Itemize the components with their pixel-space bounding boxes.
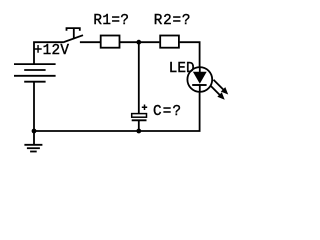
switch actuator T xyxy=(67,28,80,39)
node junction bottom at capacitor xyxy=(136,129,141,134)
ground bar 2 xyxy=(27,147,40,149)
ground stem xyxy=(33,131,35,145)
node junction bottom left xyxy=(32,129,37,134)
capacitor C (polarized) xyxy=(132,105,148,121)
wire switch to R1 xyxy=(80,41,100,43)
LED cathode wire inside xyxy=(199,85,201,92)
battery plate short 1 xyxy=(24,69,45,71)
switch lever xyxy=(63,35,83,42)
ground bar 1 xyxy=(24,144,42,146)
LED cathode bar xyxy=(192,84,206,86)
resistor R2 xyxy=(160,36,179,48)
svg-text:R2=?: R2=? xyxy=(154,13,192,29)
wire capacitor to bottom rail xyxy=(138,120,140,131)
ground bar 3 xyxy=(30,151,37,153)
svg-text:R1=?: R1=? xyxy=(93,13,129,29)
svg-text:+12V: +12V xyxy=(34,43,70,59)
resistor R1 xyxy=(101,36,120,48)
wire battery bottom to ground node xyxy=(33,82,35,131)
LED circle xyxy=(187,67,212,92)
LED anode wire inside xyxy=(199,67,201,72)
node junction top (to capacitor) xyxy=(136,40,141,45)
LED triangle xyxy=(193,72,207,84)
bottom wire xyxy=(34,130,201,132)
wire LED to bottom rail xyxy=(199,92,201,131)
wire R2 to right rail corner xyxy=(180,42,200,67)
wire R1 to R2 xyxy=(119,41,159,43)
svg-text:C=?: C=? xyxy=(153,104,182,120)
wire battery top to switch xyxy=(34,42,63,64)
battery plate short 2 xyxy=(24,81,45,83)
svg-text:LED: LED xyxy=(169,61,195,77)
capacitor top plate (hollow) xyxy=(132,114,147,118)
LED light arrow 2 xyxy=(211,86,225,100)
ground xyxy=(24,131,42,152)
pushbutton switch S1 xyxy=(63,28,83,42)
capacitor plus sign xyxy=(142,105,147,111)
LED light arrow 1 xyxy=(214,80,229,95)
battery plate long 1 xyxy=(14,63,56,65)
wire junction to capacitor xyxy=(138,42,140,114)
battery B1 xyxy=(14,64,56,82)
battery plate long 2 xyxy=(14,75,56,77)
LED D1 xyxy=(187,67,228,100)
capacitor bottom plate xyxy=(132,119,147,121)
